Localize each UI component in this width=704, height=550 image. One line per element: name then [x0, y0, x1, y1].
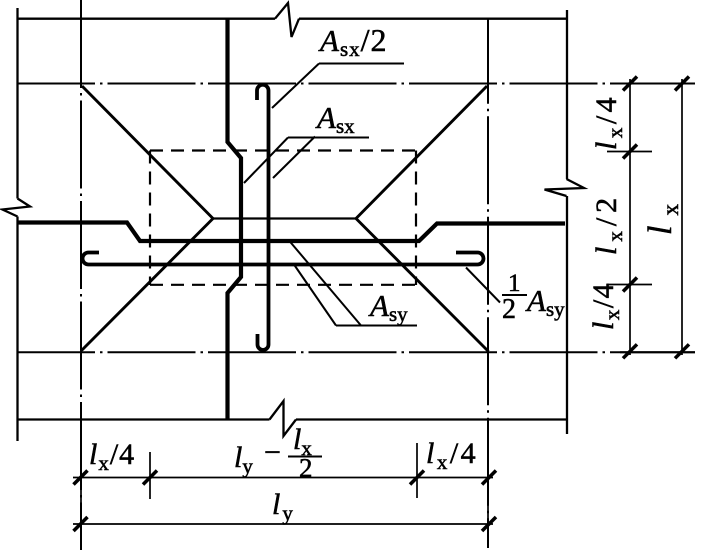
bent bar boundary bottom right leg [356, 219, 489, 352]
rebar Asy straight bar with end hooks (horizontal) [83, 253, 484, 265]
chain line solid patch bottom right [620, 351, 695, 353]
dimension line lx segments (inner right) [629, 79, 631, 355]
svg-text:lx/4: lx/4 [426, 437, 478, 474]
svg-text:2: 2 [299, 453, 313, 483]
top edge line of adjacent panel [18, 18, 568, 20]
leader 1/2 Asy [466, 268, 500, 303]
bent bar boundary bottom left leg [82, 219, 214, 351]
chain centerline top support [17, 83, 695, 85]
leader Asx to straight bar [273, 137, 315, 179]
rebar Asx bent bar (vertical with cranks) [228, 19, 242, 419]
dashed strip boundary bottom [150, 284, 416, 286]
svg-text:lx/4: lx/4 [587, 282, 624, 330]
svg-text:2: 2 [502, 294, 516, 325]
svg-text:lx/4: lx/4 [89, 438, 135, 475]
svg-text:1: 1 [508, 270, 521, 297]
dimension line bottom row 2 (ly) [73, 523, 493, 525]
svg-text:−: − [264, 436, 281, 469]
svg-text:lx/4: lx/4 [590, 94, 627, 150]
bent bar boundary top right leg [356, 86, 487, 219]
dashed strip boundary right [415, 151, 417, 286]
leader Asy to bent bar [289, 241, 361, 326]
dimension extension stub at lx/4 right top [607, 151, 652, 153]
chain centerline bottom support [17, 351, 695, 353]
chain centerline left support [80, 0, 82, 550]
dashed strip boundary left [149, 151, 151, 286]
break symbol top [275, 3, 299, 37]
chain line solid patch top right [655, 83, 695, 85]
label Asy underline [336, 325, 417, 327]
chain centerline right support [487, 19, 489, 548]
svg-text:lx/2: lx/2 [590, 193, 627, 255]
bottom edge line of adjacent panel [18, 418, 568, 420]
rebar Asx straight bar with end hooks (vertical) [257, 85, 269, 350]
tick marks right dimension lines [623, 77, 689, 359]
left edge line [16, 8, 18, 441]
dimension extension stub at lx/4 right bottom [607, 284, 652, 286]
label Asx/2 underline [319, 63, 404, 65]
label Asx underline [288, 137, 369, 139]
tick marks bottom dimension lines [74, 471, 497, 532]
extension line bottom right chain solid [487, 424, 489, 548]
bent bar boundary top left leg [82, 86, 213, 219]
dimension line lx overall (outer right) [681, 79, 683, 355]
break symbol bottom [270, 401, 297, 436]
dimension line bottom row 1 [73, 477, 493, 479]
extension line bottom x=150 [149, 452, 151, 499]
bent bar boundary middle [213, 217, 356, 219]
right edge line [566, 10, 568, 434]
extension line bottom x=417 [416, 443, 418, 498]
break symbol left [3, 199, 31, 217]
dashed strip boundary top [150, 149, 416, 151]
break symbol right [545, 179, 585, 196]
leader Asy to straight bar [294, 265, 336, 326]
leader Asx to bent bar [244, 138, 288, 184]
leader Asx/2 [272, 64, 319, 109]
extension line bottom left chain solid [80, 424, 82, 550]
rebar Asy bent bar (horizontal with cranks) [18, 223, 566, 242]
